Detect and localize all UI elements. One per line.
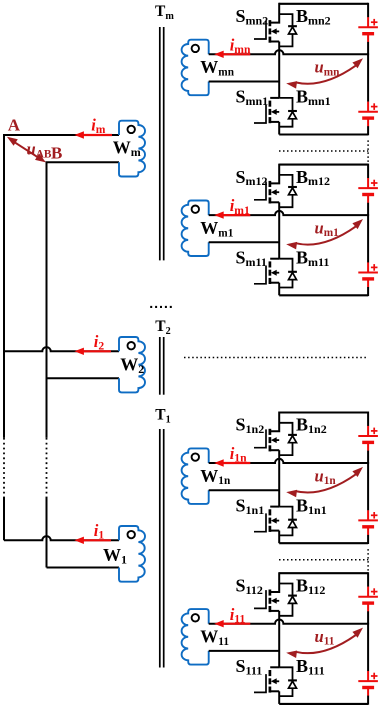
body diode of S1n1 xyxy=(279,507,297,536)
current arrow i_11 xyxy=(223,623,251,625)
current arrow i_1 xyxy=(83,539,111,541)
polarity dot of Wmn xyxy=(192,45,199,52)
wire: top rail of cell m12 xyxy=(279,164,368,166)
wire: winding m1 bottom lead to midpoint xyxy=(209,241,280,243)
wire: winding 11 top lead with hop, to battery midpoint xyxy=(209,620,368,624)
wire: half-bridge midpoint vertical (S112 source to S111 drain) xyxy=(278,611,280,667)
current arrow i_m xyxy=(83,134,112,136)
transistor Smn2 (upper MOSFET) xyxy=(254,3,279,43)
transistor Sm11 (lower MOSFET) xyxy=(254,259,279,296)
wire: W_2 bottom lead from bus B xyxy=(47,377,120,379)
dotted continuation of T_2 secondary cells xyxy=(184,357,368,359)
wire: bus from node A (to primary windings top leads) xyxy=(4,135,119,438)
wire: bottom rail of cell m11 xyxy=(279,294,368,296)
winding W11 (secondary) xyxy=(182,609,209,665)
transistor S1n2 (upper MOSFET) xyxy=(254,412,279,452)
wire: half-bridge midpoint vertical (Smn2 source to Smn1 drain) xyxy=(278,42,280,98)
polarity dot of W1n xyxy=(192,453,199,460)
winding Wm1 (secondary) xyxy=(182,201,209,257)
transformer core T_2 xyxy=(159,337,161,395)
voltage arrow u_11 xyxy=(296,635,356,653)
wire: winding m1 top lead with hop, to battery midpoint xyxy=(209,211,368,215)
battery B111 xyxy=(358,623,378,705)
wire: winding 1n bottom lead to midpoint xyxy=(209,489,280,491)
winding W_1 (primary of T_1) xyxy=(119,526,145,582)
voltage arrow u_m1 xyxy=(296,226,356,244)
dotted right-rail continuation xyxy=(367,140,369,162)
wire: half-bridge midpoint vertical (S1n2 source to S1n1 drain) xyxy=(278,450,280,506)
voltage arrow u_AB xyxy=(11,140,42,160)
winding W1n (secondary) xyxy=(182,448,209,504)
winding W_2 (primary of T_2) xyxy=(119,337,145,392)
wire: W_1 top lead from bus A with hop over bus B xyxy=(4,536,119,540)
transistor Smn1 (lower MOSFET) xyxy=(254,98,279,135)
body diode of S1n2 xyxy=(279,423,297,455)
polarity dot of W_2 xyxy=(128,342,135,349)
body diode of S112 xyxy=(279,584,297,616)
body diode of Smn2 xyxy=(279,14,297,46)
wire: top rail of cell mn2 xyxy=(279,3,368,5)
current arrow i_m1 xyxy=(223,214,251,216)
wire: bottom rail of cell 1n1 xyxy=(279,542,368,544)
current arrow i_1n xyxy=(223,462,251,464)
transistor S111 (lower MOSFET) xyxy=(254,667,279,704)
dotted continuation between cells xyxy=(279,150,368,152)
current arrow i_2 xyxy=(83,350,111,352)
polarity dot of W_m xyxy=(128,126,135,133)
dotted continuation between cells xyxy=(279,559,368,561)
wire: W_2 top lead from bus A with hop over bus B xyxy=(4,347,119,351)
battery Bm11 xyxy=(358,214,378,296)
wire: bottom rail of cell mn1 xyxy=(279,133,368,135)
wire: winding mn bottom lead to midpoint xyxy=(209,81,280,83)
battery B1n1 xyxy=(358,462,378,544)
current arrow i_mn xyxy=(223,53,251,55)
battery B1n2 xyxy=(358,412,378,464)
body diode of Smn1 xyxy=(279,98,297,127)
voltage arrow u_1n xyxy=(296,474,356,492)
transformer core T_1 xyxy=(159,429,161,668)
voltage arrow u_mn xyxy=(296,66,356,84)
svg-text:B: B xyxy=(51,144,62,163)
svg-text:A: A xyxy=(8,116,21,135)
wire: bottom rail of cell 111 xyxy=(279,703,368,705)
body diode of Sm11 xyxy=(279,259,297,288)
polarity dot of Wm1 xyxy=(192,206,199,213)
body diode of S111 xyxy=(279,667,297,696)
wire: half-bridge midpoint vertical (Sm12 source to Sm11 drain) xyxy=(278,202,280,258)
transistor Sm12 (upper MOSFET) xyxy=(254,164,279,204)
wire: winding 11 bottom lead to midpoint xyxy=(209,650,280,652)
body diode of Sm12 xyxy=(279,175,297,207)
wire: top rail of cell 1n2 xyxy=(279,411,368,413)
winding Wmn (secondary) xyxy=(182,40,209,95)
transformer core T_m xyxy=(159,27,161,260)
battery Bmn1 xyxy=(358,53,378,135)
wire: winding 1n top lead with hop, to battery midpoint xyxy=(209,459,368,463)
wire: winding mn top lead with hop, to battery midpoint xyxy=(209,50,368,54)
winding W_m (primary of T_m) xyxy=(119,121,145,177)
battery Bm12 xyxy=(358,164,378,216)
polarity dot of W_1 xyxy=(128,531,135,538)
battery B112 xyxy=(358,572,378,624)
dotted continuation of modules (vertical ellipsis) xyxy=(150,306,172,308)
dotted right-rail continuation xyxy=(367,549,369,571)
transistor S112 (upper MOSFET) xyxy=(254,572,279,612)
wire: top rail of cell 112 xyxy=(279,572,368,574)
transistor S1n1 (lower MOSFET) xyxy=(254,507,279,544)
polarity dot of W11 xyxy=(192,614,199,621)
wire: W_1 bottom lead from bus B xyxy=(47,567,120,569)
wire: bus from node B (to primary windings bottom leads) xyxy=(47,162,120,438)
battery Bmn2 xyxy=(358,3,378,55)
